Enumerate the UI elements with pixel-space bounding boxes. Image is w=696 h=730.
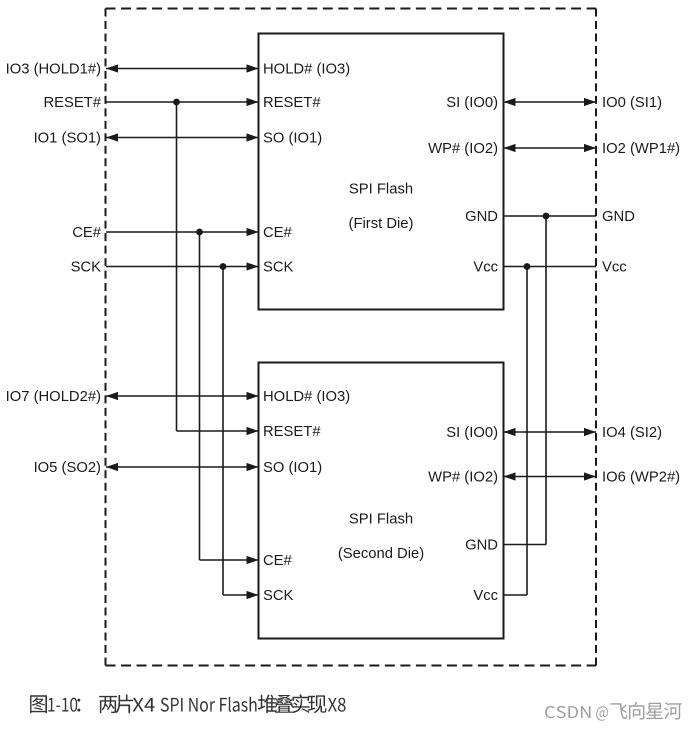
svg-text:SPI Flash: SPI Flash	[349, 182, 413, 198]
svg-text:SCK: SCK	[71, 260, 102, 276]
svg-text:Vcc: Vcc	[473, 588, 498, 604]
svg-text:WP# (IO2): WP# (IO2)	[428, 470, 498, 486]
svg-text:RESET#: RESET#	[43, 95, 101, 111]
svg-text:GND: GND	[465, 209, 498, 225]
svg-text:RESET#: RESET#	[263, 95, 321, 111]
svg-text:CE#: CE#	[72, 225, 102, 241]
svg-text:SCK: SCK	[263, 588, 294, 604]
svg-text:SI (IO0): SI (IO0)	[446, 95, 498, 111]
svg-text:SI (IO0): SI (IO0)	[446, 425, 498, 441]
svg-text:SCK: SCK	[263, 260, 294, 276]
svg-text:SO (IO1): SO (IO1)	[263, 131, 322, 147]
svg-text:(First Die): (First Die)	[349, 216, 414, 232]
svg-text:GND: GND	[465, 538, 498, 554]
svg-text:IO2 (WP1#): IO2 (WP1#)	[602, 141, 680, 157]
svg-text:IO0 (SI1): IO0 (SI1)	[602, 95, 662, 111]
svg-text:IO6 (WP2#): IO6 (WP2#)	[602, 470, 680, 486]
svg-text:GND: GND	[602, 209, 635, 225]
svg-text:HOLD# (IO3): HOLD# (IO3)	[263, 389, 350, 405]
svg-text:CE#: CE#	[263, 225, 293, 241]
svg-text:SPI Flash: SPI Flash	[349, 512, 413, 528]
svg-text:WP# (IO2): WP# (IO2)	[428, 141, 498, 157]
svg-text:IO4 (SI2): IO4 (SI2)	[602, 425, 662, 441]
svg-text:IO5 (SO2): IO5 (SO2)	[34, 460, 101, 476]
svg-text:HOLD# (IO3): HOLD# (IO3)	[263, 62, 350, 78]
svg-text:RESET#: RESET#	[263, 424, 321, 440]
svg-text:IO1 (SO1): IO1 (SO1)	[34, 131, 101, 147]
svg-text:IO7 (HOLD2#): IO7 (HOLD2#)	[6, 389, 101, 405]
svg-text:SO (IO1): SO (IO1)	[263, 460, 322, 476]
svg-text:(Second Die): (Second Die)	[338, 546, 424, 562]
svg-text:Vcc: Vcc	[473, 260, 498, 276]
svg-text:Vcc: Vcc	[602, 260, 627, 276]
svg-text:IO3 (HOLD1#): IO3 (HOLD1#)	[6, 62, 101, 78]
svg-text:CE#: CE#	[263, 553, 293, 569]
